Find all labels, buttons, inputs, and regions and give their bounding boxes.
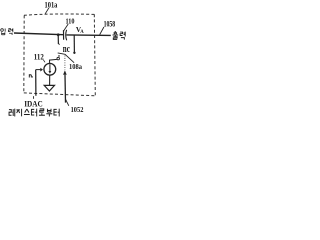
svg-text:IDAC: IDAC xyxy=(24,100,43,109)
svg-text:110: 110 xyxy=(66,16,75,25)
svg-text:nc: nc xyxy=(63,44,70,55)
svg-text:1052: 1052 xyxy=(71,105,84,114)
svg-text:A: A xyxy=(80,30,84,35)
svg-text:108a: 108a xyxy=(69,62,82,71)
svg-text:101a: 101a xyxy=(45,1,58,10)
svg-text:112: 112 xyxy=(34,52,44,61)
svg-text:1058: 1058 xyxy=(104,19,116,28)
